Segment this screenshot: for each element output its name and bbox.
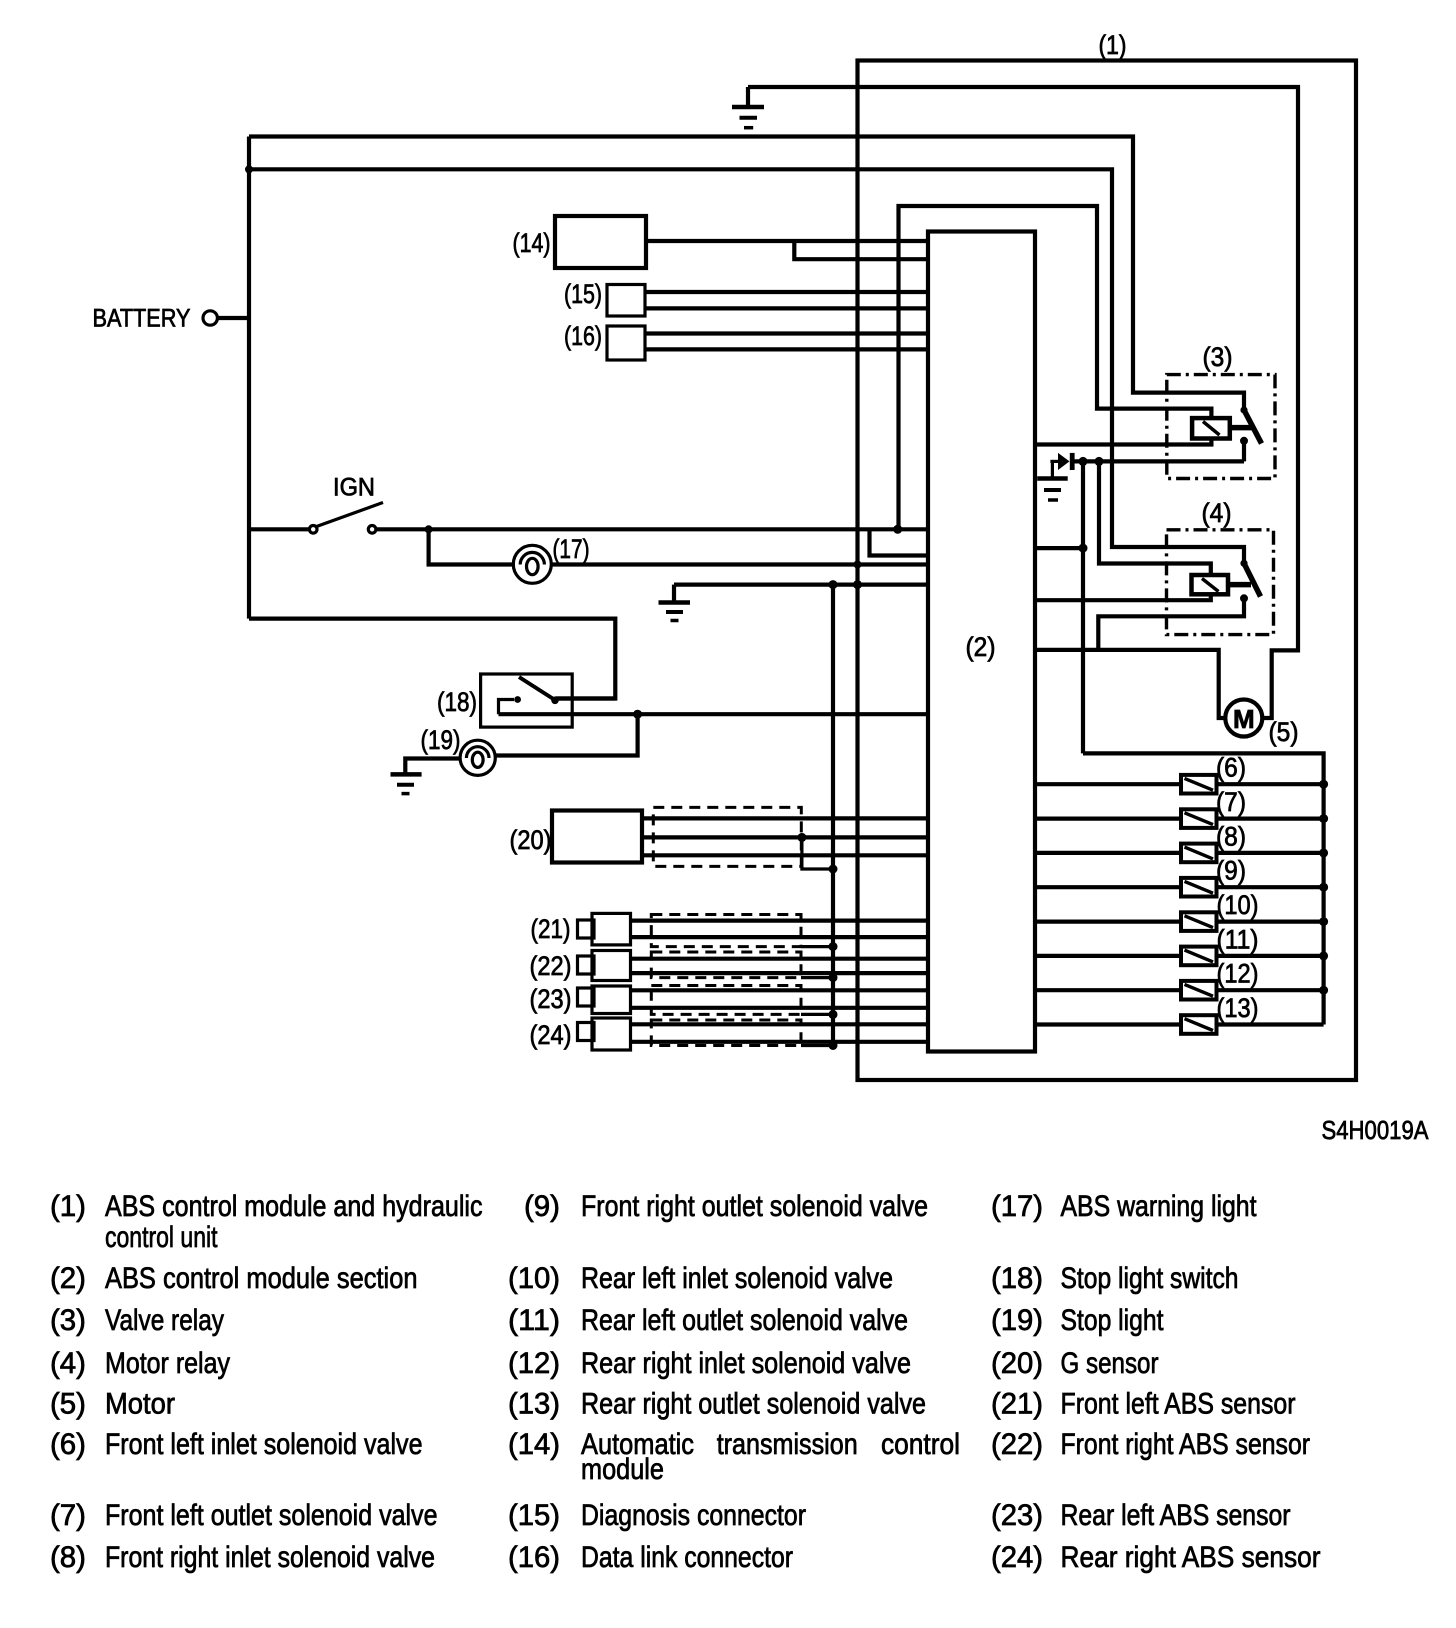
- wire solenoid supply drop: [1081, 461, 1085, 753]
- shield dashed box sensor 24: [651, 1020, 801, 1046]
- connector J2 data link connector (16): [607, 326, 645, 360]
- svg-text:(3): (3): [1203, 342, 1233, 372]
- node junction ground-shield bus: [829, 580, 838, 589]
- wire relay K1 bottom contact stub: [1242, 441, 1246, 462]
- svg-text:(8): (8): [50, 1541, 86, 1574]
- node junction shield bus 22: [829, 973, 838, 982]
- svg-text:(12): (12): [1217, 959, 1259, 989]
- relay K1 switch top contact: [1240, 406, 1247, 413]
- wire module ground net: [674, 582, 928, 586]
- svg-text:Front left inlet solenoid valv: Front left inlet solenoid valve: [105, 1428, 423, 1461]
- wire IGN step branch: [870, 529, 929, 555]
- wire battery bus vertical: [247, 137, 251, 619]
- ground GND3 stop light: [391, 774, 422, 793]
- relay K2 coil plunger stub: [1228, 582, 1251, 588]
- shield dashed box G sensor: [653, 807, 801, 866]
- svg-text:(20): (20): [991, 1347, 1043, 1380]
- svg-text:(13): (13): [1217, 993, 1259, 1023]
- legend (12) middle column: [508, 1347, 911, 1380]
- svg-text:BATTERY: BATTERY: [93, 305, 191, 333]
- wire motor relay switch output: [1098, 598, 1244, 650]
- wire IGN to module: [376, 527, 928, 531]
- solenoid valve V12 rear right inlet solenoid valve (12): [1035, 981, 1324, 1000]
- wire wrap around module to valve relay coil: [899, 206, 1212, 529]
- svg-text:Front right ABS sensor: Front right ABS sensor: [1061, 1428, 1311, 1461]
- legend (15) middle column: [508, 1499, 806, 1532]
- wire stop light to ground: [405, 759, 461, 773]
- switch S1 blade contact dot: [551, 697, 559, 705]
- wire shield drain 22: [801, 976, 833, 979]
- node junction rail row 11: [1319, 951, 1328, 960]
- node junction sense tap: [1079, 544, 1088, 553]
- box U1 ABS control module and hydraulic control unit (1): [858, 61, 1357, 1081]
- node junction stop light branch: [633, 710, 642, 719]
- wire shield drain 23: [801, 1013, 833, 1016]
- svg-text:(24): (24): [991, 1541, 1043, 1574]
- wire sensor 23 pair: [631, 990, 929, 1008]
- wire motor feed from module: [1035, 650, 1226, 718]
- wire ATC output branch: [794, 241, 928, 259]
- svg-text:control unit: control unit: [105, 1221, 218, 1254]
- legend (22) right column: [991, 1428, 1310, 1461]
- svg-text:(14): (14): [513, 228, 551, 258]
- switch S1 stop light switch (18) box: [481, 674, 573, 727]
- svg-text:(5): (5): [50, 1388, 86, 1421]
- wire sensor 22 pair: [631, 959, 929, 973]
- wire shield drain 21: [801, 945, 833, 948]
- switch S1 left contact dot: [514, 696, 521, 703]
- legend (17) right column: [991, 1190, 1257, 1223]
- svg-text:(18): (18): [991, 1262, 1043, 1295]
- svg-text:(10): (10): [508, 1262, 560, 1295]
- svg-text:(23): (23): [530, 984, 572, 1014]
- svg-text:Motor: Motor: [105, 1388, 175, 1421]
- svg-text:(21): (21): [991, 1388, 1043, 1421]
- solenoid valve V6 front left inlet solenoid valve (6): [1035, 775, 1324, 794]
- node junction lamp wire - frame: [854, 561, 862, 569]
- relay K2 switch blade: [1244, 563, 1261, 596]
- legend (3) left column: [50, 1304, 224, 1337]
- switch IGN: [249, 503, 383, 534]
- svg-text:Rear left outlet solenoid valv: Rear left outlet solenoid valve: [581, 1304, 908, 1337]
- wire sensor 21 pair: [631, 921, 929, 938]
- legend (18) right column: [991, 1262, 1239, 1295]
- relay K2 coil: [1192, 575, 1229, 594]
- svg-text:(6): (6): [50, 1428, 86, 1461]
- legend (19) right column: [991, 1304, 1164, 1337]
- relay K2 switch bottom contact: [1240, 594, 1248, 602]
- svg-text:Rear right ABS sensor: Rear right ABS sensor: [1061, 1541, 1321, 1574]
- node junction rail row 8: [1319, 848, 1328, 857]
- sensor B3 rear left ABS sensor (23): [578, 986, 631, 1014]
- relay K1 switch blade: [1244, 410, 1262, 444]
- svg-text:control: control: [881, 1428, 960, 1461]
- ground GND4 diode: [1037, 461, 1068, 500]
- switch S1 blade: [519, 677, 555, 700]
- svg-text:Stop light: Stop light: [1061, 1304, 1165, 1337]
- svg-text:(16): (16): [564, 321, 602, 351]
- switch S1 left contact wire: [499, 700, 515, 715]
- relay K1 valve relay (3) dash-dot box: [1167, 375, 1275, 479]
- svg-text:Automatic: Automatic: [581, 1428, 694, 1461]
- node junction rail row 7: [1319, 814, 1328, 823]
- wire diagnosis connector line 1: [645, 290, 928, 294]
- diode D1: [1050, 453, 1074, 470]
- svg-text:Data link connector: Data link connector: [581, 1541, 793, 1574]
- wire shield drain 24: [801, 1044, 833, 1047]
- svg-text:(7): (7): [1216, 787, 1246, 817]
- legend (21) right column: [991, 1388, 1296, 1421]
- svg-text:Front right inlet solenoid val: Front right inlet solenoid valve: [105, 1541, 435, 1574]
- wire lamp to module: [550, 562, 928, 566]
- svg-text:G sensor: G sensor: [1061, 1347, 1159, 1380]
- solenoid valve V13 rear right outlet solenoid valve (13): [1035, 1015, 1324, 1034]
- svg-text:Rear left ABS sensor: Rear left ABS sensor: [1061, 1499, 1291, 1532]
- svg-text:(2): (2): [50, 1262, 86, 1295]
- node junction IGN-lamp branch: [425, 525, 433, 533]
- svg-text:ABS control module section: ABS control module section: [105, 1262, 418, 1295]
- ground GND1 top: [732, 87, 764, 128]
- wire shield ground bus: [831, 585, 835, 1047]
- svg-text:ABS warning light: ABS warning light: [1061, 1190, 1258, 1223]
- motor M1 (5): [1225, 700, 1262, 737]
- node junction shield bus 24: [829, 1041, 838, 1050]
- svg-text:Rear right outlet solenoid val: Rear right outlet solenoid valve: [581, 1388, 926, 1421]
- svg-text:(15): (15): [508, 1499, 560, 1532]
- solenoid valve V11 rear left outlet solenoid valve (11): [1035, 947, 1324, 966]
- wire stop light branch: [496, 714, 638, 755]
- svg-text:(2): (2): [966, 632, 996, 662]
- solenoid valve V10 rear left inlet solenoid valve (10): [1035, 912, 1324, 931]
- wire sensor 24 pair: [631, 1024, 929, 1042]
- relay K1 switch bottom contact: [1240, 437, 1248, 445]
- shield dashed box sensor 22: [651, 952, 801, 978]
- svg-text:(15): (15): [564, 279, 602, 309]
- svg-text:(9): (9): [1216, 856, 1246, 886]
- wire lamp branch: [429, 529, 515, 564]
- legend (14) justified first line: [581, 1428, 960, 1461]
- svg-text:(19): (19): [991, 1304, 1043, 1337]
- svg-text:(17): (17): [991, 1190, 1043, 1223]
- wire diagnosis connector line 2: [645, 306, 928, 310]
- wire valve relay switch output: [1075, 459, 1245, 463]
- svg-text:(22): (22): [991, 1428, 1043, 1461]
- legend (11) middle column: [508, 1304, 908, 1337]
- node junction IGN-wrap: [893, 525, 902, 534]
- svg-text:(21): (21): [531, 914, 571, 944]
- node junction rail row 6: [1319, 780, 1328, 789]
- connector U3 automatic transmission control module (14): [555, 216, 646, 268]
- svg-text:(11): (11): [508, 1304, 560, 1337]
- svg-text:Front left ABS sensor: Front left ABS sensor: [1061, 1388, 1296, 1421]
- node junction rail row 10: [1319, 917, 1328, 926]
- relay K2 switch top contact: [1240, 560, 1247, 567]
- svg-text:(4): (4): [1202, 498, 1232, 528]
- svg-text:Diagnosis connector: Diagnosis connector: [581, 1499, 806, 1532]
- legend (13) middle column: [508, 1388, 926, 1421]
- svg-text:(3): (3): [50, 1304, 86, 1337]
- svg-text:(17): (17): [553, 534, 590, 564]
- svg-text:(22): (22): [530, 951, 572, 981]
- legend (6) left column: [50, 1428, 423, 1461]
- wire G sensor line 2: [642, 835, 928, 839]
- sensor B2 front right ABS sensor (22): [578, 951, 631, 981]
- legend (16) middle column: [508, 1541, 793, 1574]
- svg-text:(4): (4): [50, 1347, 86, 1380]
- wire G shield drain: [802, 837, 833, 869]
- wire ground net to motor relay rail: [748, 87, 1298, 718]
- node junction ground-frame: [853, 580, 862, 589]
- svg-text:(20): (20): [510, 825, 552, 855]
- svg-text:Rear left inlet solenoid valve: Rear left inlet solenoid valve: [581, 1262, 893, 1295]
- legend (9) middle column: [524, 1190, 928, 1223]
- svg-text:Motor relay: Motor relay: [105, 1347, 230, 1380]
- box U2 ABS control module section (2): [928, 232, 1035, 1052]
- legend (14) middle column: [508, 1428, 664, 1486]
- node junction diode rail 2: [1095, 457, 1104, 466]
- legend (10) middle column: [508, 1262, 893, 1295]
- svg-text:(23): (23): [991, 1499, 1043, 1532]
- svg-text:(1): (1): [1099, 30, 1127, 60]
- svg-text:(7): (7): [50, 1499, 86, 1532]
- relay K1 coil plunger stub: [1230, 425, 1253, 431]
- wire valve relay feed: [249, 137, 1244, 408]
- solenoid valve V7 front left outlet solenoid valve (7): [1035, 809, 1324, 828]
- connector J1 diagnosis connector (15): [607, 285, 645, 317]
- legend (8) left column: [50, 1541, 435, 1574]
- node junction battery bus: [245, 165, 253, 173]
- wire module sense tap: [1035, 546, 1083, 550]
- wire stop light switch feed: [249, 619, 615, 699]
- wire data link line 1: [645, 331, 928, 335]
- legend (24) right column: [991, 1541, 1321, 1574]
- node junction shield bus 23: [829, 1010, 838, 1019]
- svg-text:(18): (18): [437, 687, 477, 717]
- shield dashed box sensor 21: [651, 915, 801, 947]
- svg-text:Valve relay: Valve relay: [105, 1304, 224, 1337]
- svg-text:Front right outlet solenoid va: Front right outlet solenoid valve: [581, 1190, 928, 1223]
- node junction shield bus 1: [829, 865, 838, 874]
- svg-text:ABS control module and hydraul: ABS control module and hydraulic: [105, 1190, 483, 1223]
- shield dashed box sensor 23: [651, 986, 801, 1015]
- node junction rail row 9: [1319, 883, 1328, 892]
- lamp L2 stop light (19): [460, 740, 495, 775]
- svg-text:IGN: IGN: [333, 474, 375, 502]
- svg-text:(13): (13): [508, 1388, 560, 1421]
- svg-text:(5): (5): [1269, 717, 1299, 747]
- sensor B4 rear right ABS sensor (24): [578, 1018, 631, 1050]
- ground GND2 module: [659, 585, 691, 621]
- wire ATC output: [646, 239, 928, 243]
- svg-text:M: M: [1233, 704, 1255, 734]
- svg-text:(6): (6): [1216, 753, 1246, 783]
- legend (2) left column: [50, 1262, 418, 1295]
- svg-text:Stop light switch: Stop light switch: [1061, 1262, 1239, 1295]
- legend (7) left column: [50, 1499, 438, 1532]
- wire data link line 2: [645, 347, 928, 351]
- solenoid valve V9 front right outlet solenoid valve (9): [1035, 878, 1324, 897]
- svg-text:transmission: transmission: [717, 1428, 858, 1461]
- legend (23) right column: [991, 1499, 1291, 1532]
- svg-text:(24): (24): [530, 1020, 572, 1050]
- wire blade to feed: [555, 696, 615, 700]
- svg-text:S4H0019A: S4H0019A: [1322, 1115, 1430, 1145]
- legend (20) right column: [991, 1347, 1159, 1380]
- wire G sensor line 3: [642, 853, 928, 857]
- svg-text:Rear right inlet solenoid valv: Rear right inlet solenoid valve: [581, 1347, 911, 1380]
- svg-text:(11): (11): [1217, 924, 1259, 954]
- battery terminal circle: [203, 311, 217, 325]
- legend (1) left column: [50, 1190, 483, 1254]
- legend (5) left column: [50, 1388, 175, 1421]
- svg-text:(1): (1): [50, 1190, 86, 1223]
- sensor B1 front left ABS sensor (21): [578, 913, 631, 945]
- wire G sensor line 1: [642, 816, 928, 820]
- svg-text:(14): (14): [508, 1428, 560, 1461]
- wire battery feed: [218, 316, 250, 320]
- lamp L1 ABS warning light (17): [513, 545, 551, 583]
- node junction diode rail 1: [1079, 457, 1088, 466]
- sensor U4 G sensor (20) box: [552, 811, 642, 863]
- svg-text:(12): (12): [508, 1347, 560, 1380]
- wire motor relay coil feed: [1099, 461, 1211, 575]
- wire valve relay coil bottom to module: [1035, 438, 1211, 445]
- wire stop light switch output: [499, 712, 929, 716]
- relay K1 coil: [1192, 418, 1230, 438]
- relay K2 motor relay (4) dash-dot box: [1167, 530, 1274, 635]
- svg-text:(9): (9): [524, 1190, 560, 1223]
- node junction shield bus 21: [829, 942, 838, 951]
- svg-text:(10): (10): [1217, 890, 1259, 920]
- wire solenoid supply rail: [1083, 753, 1324, 1024]
- svg-text:(19): (19): [421, 725, 461, 755]
- node junction rail row 12: [1319, 986, 1328, 995]
- wire motor relay feed: [249, 169, 1244, 560]
- svg-text:(8): (8): [1216, 821, 1246, 851]
- svg-text:Front left outlet solenoid val: Front left outlet solenoid valve: [105, 1499, 438, 1532]
- legend (4) left column: [50, 1347, 230, 1380]
- solenoid valve V8 front right inlet solenoid valve (8): [1035, 844, 1324, 863]
- svg-text:(16): (16): [508, 1541, 560, 1574]
- wire motor relay coil bottom to module: [1035, 595, 1211, 601]
- node junction G shield tap: [797, 833, 806, 842]
